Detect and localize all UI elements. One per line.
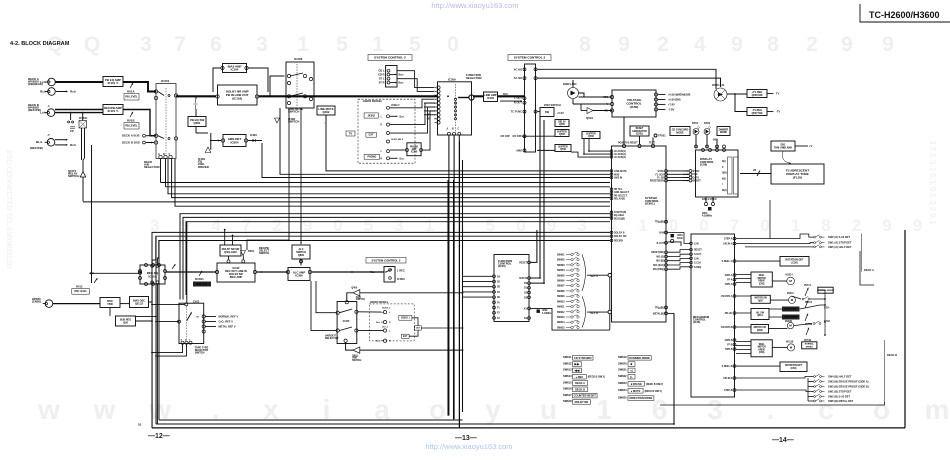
diode D400: [248, 140, 263, 142]
CX05 wiper: [187, 313, 192, 321]
svg-text:1: 1: [638, 216, 647, 235]
svg-text:AU-BUS(1): AU-BUS(1): [614, 156, 626, 159]
switch ALC SWITCH: [292, 245, 310, 259]
svg-text:AMS IN: AMS IN: [614, 177, 622, 180]
svg-text:(IC102): (IC102): [232, 97, 242, 101]
svg-text:RESET: RESET: [636, 128, 644, 130]
svg-text:CW DRV-B: CW DRV-B: [721, 327, 733, 329]
svg-text:PB LEVEL: PB LEVEL: [125, 125, 138, 128]
svg-text:(C30): (C30): [791, 368, 797, 370]
wire ic301 to ic303 upper: [270, 76, 285, 96]
svg-text:Q61B: Q61B: [757, 330, 763, 332]
svg-text:STEP-B: STEP-B: [724, 390, 733, 392]
svg-text:CD OFF: CD OFF: [512, 134, 522, 138]
svg-text:w: w: [37, 394, 60, 425]
watermark middle row digits: [150, 216, 922, 235]
wire unblank arc: [782, 152, 791, 164]
relay RY101: [79, 121, 87, 129]
svg-text:TKM UNBLANK: TKM UNBLANK: [774, 146, 792, 149]
svg-text:PHONO: PHONO: [410, 146, 418, 148]
wire trunk x91.5: [91, 145, 93, 273]
svg-text:MOTOR SW: MOTOR SW: [754, 298, 767, 300]
volume RV301 REC CAL: [199, 270, 203, 276]
motor sw B: [751, 325, 769, 334]
wire IC301 bottom drops: [160, 159, 162, 183]
svg-text:DIRECTION MODE: DIRECTION MODE: [630, 396, 653, 400]
svg-text:EQ-HIGH: EQ-HIGH: [614, 215, 624, 217]
svg-text:Q: Q: [84, 33, 100, 56]
box EXT: [366, 132, 376, 137]
svg-text:(FL35): (FL35): [793, 176, 802, 180]
amp Q401 unit switch: [353, 347, 360, 353]
svg-text:PB-SELECT: PB-SELECT: [614, 195, 628, 197]
svg-text:MO-(SLK): MO-(SLK): [653, 265, 664, 267]
mechanism right pins: [733, 237, 736, 391]
svg-text:4: 4: [694, 33, 706, 56]
svg-text:REC CAL: REC CAL: [196, 283, 208, 286]
wire ic309 big node bus: [458, 97, 469, 99]
svg-text:FF-B: FF-B: [727, 345, 733, 347]
svg-text:POWER-B RESET: POWER-B RESET: [618, 143, 638, 145]
rotation det A: [780, 257, 809, 267]
svg-text:RV1B: RV1B: [127, 119, 135, 123]
jack DECK A Lch input: [45, 78, 55, 86]
wire deck A to PB EQ AMP: [56, 81, 104, 83]
svg-text:Q301,A302: Q301,A302: [224, 251, 237, 254]
fluorescent display tube: [771, 164, 824, 184]
svg-text:SW6 (B) METAL DET: SW6 (B) METAL DET: [828, 399, 854, 403]
svg-text:D601: D601: [248, 249, 255, 253]
IC601 right metal pins: [665, 306, 668, 309]
svg-text:L REC: L REC: [397, 269, 405, 273]
svg-text:2: 2: [657, 33, 669, 56]
svg-text:CD SYNCHRO: CD SYNCHRO: [574, 356, 591, 360]
svg-text:TV: TV: [776, 92, 780, 96]
svg-text:A: A: [158, 152, 160, 156]
svg-text:+7.8V: +7.8V: [668, 103, 675, 107]
CX05 right pins: [202, 315, 205, 333]
svg-text:FWD-A: FWD-A: [725, 274, 733, 277]
svg-text:DRIVE: DRIVE: [758, 349, 765, 351]
switch SW613 symbol: [566, 315, 579, 318]
svg-text:IC101 ½: IC101 ½: [108, 81, 119, 85]
wire right vertical trunk dots: [824, 334, 826, 336]
svg-text:SW5 (A) HALF DET: SW5 (A) HALF DET: [828, 245, 852, 249]
svg-text:SWITCH: SWITCH: [195, 351, 205, 354]
svg-text:BUFFER: BUFFER: [557, 131, 567, 133]
svg-text:IC301: IC301: [161, 79, 170, 83]
mute LINE MUTE Q402: [317, 106, 335, 115]
svg-text:D501: D501: [692, 121, 699, 125]
switch block IC303: [286, 62, 314, 108]
svg-text:HIGH SPEED: HIGH SPEED: [785, 309, 798, 311]
svg-text:CD L: CD L: [378, 69, 384, 73]
svg-text:IC308: IC308: [411, 152, 418, 154]
box PHONO: [364, 154, 380, 159]
svg-text:SW614 :: SW614 :: [563, 374, 573, 378]
svg-text:CrO₂ REF V: CrO₂ REF V: [219, 320, 234, 324]
svg-text:(IC40): (IC40): [498, 264, 506, 268]
svg-text:NORMAL SPEED: NORMAL SPEED: [818, 289, 834, 292]
svg-text:AC NO: AC NO: [514, 76, 522, 80]
wire deck B frame: [660, 402, 885, 405]
wire main bus junction dots: [267, 95, 269, 97]
svg-text:IC309: IC309: [448, 78, 456, 82]
svg-text:3: 3: [707, 394, 723, 425]
svg-text:Q611: Q611: [757, 315, 763, 317]
label SYSTEM CONTROL 2 top: [368, 55, 412, 61]
svg-text:AC HO: AC HO: [514, 67, 522, 71]
svg-text:SW614: SW614: [557, 321, 565, 324]
svg-text:AMS: AMS: [516, 148, 522, 152]
svg-text:RV301: RV301: [195, 277, 204, 281]
wire h3600 arrows: [390, 115, 396, 117]
switch PB EQ SW Q301: [188, 117, 206, 127]
wire ams det left: [210, 140, 222, 142]
svg-text:-TV: -TV: [776, 110, 780, 114]
svg-text:2: 2: [806, 33, 818, 56]
selector IC305 variout: [337, 302, 357, 344]
bracket KEY B: [582, 296, 586, 327]
svg-text:+5.6V(SM): +5.6V(SM): [668, 98, 681, 102]
svg-text:DR.H/L: DR.H/L: [725, 313, 733, 315]
reel motor drive A: [751, 272, 772, 287]
IC601 right pins B-IN B-OUT: [665, 231, 668, 234]
box CD SYNCHRO MODE: [670, 127, 690, 136]
svg-text:60Hz: 60Hz: [677, 237, 684, 240]
controller FUNCTION CONTROL IC40: [494, 255, 529, 322]
svg-text:PP: PP: [70, 129, 74, 133]
wire quot relay down: [82, 177, 84, 201]
svg-text:1: 1: [297, 33, 309, 56]
quot relay switch triangle: [80, 172, 85, 178]
osc BIAS OSC Q51,52: [130, 297, 149, 308]
selector IC309 FUNCTION SELECTOR: [438, 82, 472, 135]
svg-text:MODE: MODE: [720, 132, 727, 134]
svg-text:BUFFER: BUFFER: [558, 146, 568, 148]
h3600 bottom circles: [383, 311, 386, 343]
svg-text:3: 3: [256, 33, 268, 56]
function control left pins: [493, 275, 496, 319]
svg-text:BUFFER: BUFFER: [586, 133, 596, 135]
bus wires group3 to left: [168, 159, 610, 194]
rectifier D506-511: [714, 88, 727, 101]
svg-text:Q617: Q617: [758, 300, 764, 302]
IC601 top pins: [622, 144, 654, 147]
svg-text:CD OFF: CD OFF: [500, 134, 510, 138]
svg-text:Q505: Q505: [559, 124, 565, 126]
svg-text:SW613 :: SW613 :: [563, 368, 573, 372]
svg-text:0: 0: [699, 216, 708, 235]
svg-text:SW618 :: SW618 :: [563, 399, 573, 403]
svg-text:RESET(BSP): RESET(BSP): [650, 181, 664, 183]
svg-text:2: 2: [852, 216, 861, 235]
svg-text:S(B): S(B): [722, 173, 727, 175]
svg-text:TWD-B: TWD-B: [725, 349, 733, 351]
deck B bracket: [884, 340, 886, 402]
svg-text:AU-BUS(1): AU-BUS(1): [614, 150, 626, 153]
amp D601 triangle: [241, 251, 246, 256]
switch SW6 (B) METAL DET: [814, 399, 825, 402]
svg-text:m: m: [925, 394, 950, 425]
svg-text:SW616 :: SW616 :: [563, 387, 573, 391]
svg-text:BUS(1)(B): BUS(1)(B): [614, 218, 625, 220]
osc OSC TSW: [100, 298, 120, 308]
svg-text:SW605: SW605: [557, 275, 565, 277]
legend SW622: [618, 374, 635, 379]
svg-text:MO-(REQ): MO-(REQ): [653, 269, 664, 271]
svg-text:■: ■: [631, 362, 633, 366]
legend SW614: [563, 374, 605, 379]
legend SW618: [563, 399, 590, 404]
svg-text:Q509: Q509: [560, 149, 566, 151]
switch contacts near DECK B: [68, 121, 74, 123]
svg-text:REC/PB: REC/PB: [614, 241, 623, 243]
svg-text:(IC601): (IC601): [645, 202, 655, 206]
svg-text:FWD-B: FWD-B: [725, 340, 733, 342]
wire reset drop: [531, 230, 537, 262]
reel motor drive B: [751, 340, 772, 357]
switch SW3 (B) ERASE PROOF (SIDE B): [814, 384, 825, 387]
svg-text:EXT: EXT: [403, 336, 408, 338]
svg-text:0: 0: [760, 216, 769, 235]
bottom border lines: [152, 427, 905, 429]
wire display control bottom: [705, 197, 707, 202]
svg-text:B-IN: B-IN: [659, 233, 664, 235]
svg-text:(CN50): (CN50): [32, 300, 41, 304]
buffer Q509: [555, 145, 571, 152]
right trunk from connector: [531, 117, 541, 279]
legend SW623: [618, 381, 663, 386]
svg-text:PB LEVEL: PB LEVEL: [125, 96, 138, 99]
svg-text:SW609: SW609: [557, 296, 565, 298]
unblank DS1 TKM UNBLANK: [771, 141, 795, 151]
svg-text:EN: EN: [605, 110, 609, 113]
svg-text:DIMMER: DIMMER: [719, 129, 729, 131]
svg-text:SW3 (B) ERASE PROOF (SIDE B): SW3 (B) ERASE PROOF (SIDE B): [828, 385, 869, 389]
wire ic309 to line amp arrows: [480, 95, 482, 97]
IC309 output node: [469, 95, 474, 100]
switch SW612 symbol: [566, 310, 579, 313]
svg-text:S.REQ: S.REQ: [694, 267, 701, 269]
IC601 left pins group3: [610, 188, 613, 200]
svg-text:Q806: Q806: [298, 254, 305, 257]
svg-text:AU-BUS(1): AU-BUS(1): [614, 153, 626, 156]
svg-text:H/L SW: H/L SW: [756, 312, 765, 314]
svg-text:1: 1: [791, 216, 800, 235]
wire rec eq top feeds: [151, 265, 159, 284]
switch SW1 (A) STOP DET: [814, 240, 825, 243]
svg-text:RESET: RESET: [519, 262, 527, 264]
svg-text:RESET(NG): RESET(NG): [651, 252, 664, 254]
svg-text:CX05: CX05: [193, 299, 200, 303]
svg-text:FL-SCK: FL-SCK: [655, 174, 664, 176]
IC601 right pin TP: [665, 220, 668, 223]
svg-text:SW603: SW603: [557, 265, 565, 267]
capacitor C into dolby: [194, 99, 198, 109]
svg-text:DECK A: DECK A: [864, 268, 874, 272]
svg-text:T5W: T5W: [107, 302, 113, 306]
svg-text:TC-H2600/H3600: TC-H2600/H3600: [869, 10, 940, 20]
svg-text:(C30): (C30): [791, 262, 797, 265]
svg-text:Rch: Rch: [370, 270, 375, 274]
diode DBD1-504: [568, 88, 579, 99]
switch SW609 symbol: [566, 294, 579, 297]
svg-text:3: 3: [140, 33, 152, 56]
bus wires group ic301: [161, 182, 611, 184]
svg-text:JK302-C: JK302-C: [382, 308, 391, 310]
switch SW602 symbol: [566, 258, 579, 261]
svg-text:BLA: BLA: [36, 140, 43, 144]
watermark bottom www.xiaoyu163.com: [37, 394, 949, 425]
svg-text:METAL(B): METAL(B): [653, 312, 664, 315]
display control top pins: [702, 149, 726, 152]
svg-text:RVT2A: RVT2A: [805, 301, 813, 304]
legend SW617: [563, 393, 597, 398]
svg-text:R MUTE(B): R MUTE(B): [614, 212, 626, 214]
svg-text:SWITCH: SWITCH: [288, 110, 299, 114]
svg-text:BSD CONNECTED TEL 13804053291: BSD CONNECTED TEL 13804053291: [5, 150, 12, 270]
svg-text:Q502: Q502: [588, 136, 594, 138]
svg-text:◁: ◁: [629, 369, 633, 373]
pot RVT3B: [806, 327, 810, 335]
voltage control outputs: [654, 93, 657, 111]
legend SW624: [618, 388, 662, 393]
wire function control inputs: [463, 275, 493, 277]
svg-text:DRIVE: DRIVE: [758, 281, 765, 283]
svg-text:SWITCH: SWITCH: [356, 299, 366, 301]
svg-text:SW4 (B) HALF DET: SW4 (B) HALF DET: [828, 375, 852, 379]
svg-text:Q507,509: Q507,509: [752, 112, 763, 115]
svg-text:S.OUT: S.OUT: [694, 254, 702, 256]
display sync pins: [689, 170, 692, 183]
wire led drops: [695, 135, 697, 149]
buffer DELAY box: [555, 120, 569, 127]
svg-text:B(A): B(A): [722, 189, 727, 192]
IC301 internal switches: [158, 92, 164, 96]
label SYSTEM CONTROL 2 bottom: [366, 258, 406, 264]
svg-text:W101B: W101B: [786, 342, 794, 344]
amp ALC AMP IC306: [288, 268, 310, 281]
wire deck B switch feeds: [736, 377, 814, 379]
svg-text:H3600 MODEL: H3600 MODEL: [370, 300, 389, 304]
dual speed label: [782, 315, 800, 320]
svg-text:SUB IN: SUB IN: [519, 278, 527, 280]
svg-text:RESET: RESET: [693, 180, 702, 183]
svg-text:D400: D400: [250, 133, 257, 137]
wire bias amp left: [213, 68, 221, 92]
svg-text:MODE: MODE: [676, 131, 684, 134]
switch Q71B: [813, 321, 821, 325]
led D502: [704, 126, 711, 135]
svg-text:SW: SW: [545, 110, 550, 114]
rotation det B: [780, 362, 807, 372]
motor sw det: [751, 295, 770, 303]
svg-text:● MUTE: ● MUTE: [631, 389, 641, 393]
switch SW2 (A) S-02 DET: [814, 235, 825, 238]
label tape type selector switch: [195, 347, 209, 355]
legend SW625: [618, 395, 654, 400]
svg-text:IC104: IC104: [231, 68, 239, 72]
svg-text:4-2. BLOCK DIAGRAM: 4-2. BLOCK DIAGRAM: [10, 41, 70, 47]
svg-text:S.IN: S.IN: [694, 258, 699, 260]
switch SW605 symbol: [566, 273, 579, 276]
deck A bracket: [861, 234, 863, 272]
svg-text:9: 9: [618, 33, 630, 56]
svg-text:SW613: SW613: [557, 317, 565, 319]
wire tape selector to left trunk: [156, 321, 179, 323]
display DISPLAY CONTROL C58: [696, 150, 739, 197]
svg-text:CH: CH: [196, 317, 200, 319]
svg-text:20: 20: [753, 168, 757, 172]
svg-text:SW611: SW611: [557, 307, 565, 309]
dashed box H3600 MODEL top: [358, 99, 415, 163]
svg-text:SW608: SW608: [557, 291, 565, 293]
svg-text:+V: +V: [809, 144, 813, 148]
svg-text:COUNTER RESET: COUNTER RESET: [574, 394, 597, 398]
svg-text:RESET: RESET: [694, 250, 702, 252]
wire voltage ctl feeds: [579, 93, 611, 97]
svg-text:SW2 (A) S-02 DET: SW2 (A) S-02 DET: [828, 235, 850, 239]
svg-text:SW625 :: SW625 :: [618, 395, 628, 399]
svg-text:—12—: —12—: [148, 433, 170, 440]
legend SW612: [563, 361, 582, 366]
motor W101B: [787, 344, 794, 351]
svg-text:(IC40): (IC40): [693, 320, 700, 324]
svg-text:Q50: Q50: [123, 321, 128, 324]
wire K1 K0 to keys: [531, 308, 610, 330]
svg-text:IC306: IC306: [295, 274, 303, 278]
svg-text:4.19MHz: 4.19MHz: [542, 312, 552, 315]
IC601 left pins group2: [610, 170, 613, 179]
svg-text:ST L: ST L: [379, 77, 385, 81]
svg-text:SYNC: SYNC: [658, 171, 665, 173]
svg-text:RUNNING MODE: RUNNING MODE: [629, 356, 650, 360]
svg-text:(REC/PB): (REC/PB): [28, 108, 41, 112]
wire h3600 to ic309 risers: [390, 99, 434, 108]
IC301 pin circles: [154, 90, 177, 159]
h/l sw: [751, 309, 769, 320]
wire rec bus: [166, 271, 216, 273]
wire tc func: [537, 111, 540, 113]
svg-text:SELECTOR: SELECTOR: [466, 76, 482, 80]
svg-text:Q51,52: Q51,52: [135, 302, 144, 305]
function control right pins: [528, 261, 531, 319]
svg-text:c: c: [818, 394, 834, 425]
svg-text:A/D.IN-B: A/D.IN-B: [723, 377, 733, 380]
amp LINE AMP IC402: [484, 92, 498, 102]
svg-text:CW DRV-A: CW DRV-A: [721, 295, 733, 298]
wire ams line: [537, 149, 555, 151]
svg-text:SYSTEM CONTROL 2: SYSTEM CONTROL 2: [374, 56, 406, 60]
svg-text:EXT: EXT: [369, 134, 374, 137]
svg-text:TX: TX: [349, 132, 353, 135]
svg-text:CD R: CD R: [378, 73, 384, 77]
svg-text:Lch: Lch: [40, 80, 46, 84]
svg-text:Q506,508: Q506,508: [752, 94, 763, 97]
IC309 inner circles: [454, 98, 456, 120]
switch SW1 (B) STOP DET: [814, 389, 825, 392]
svg-text:FL-SD: FL-SD: [657, 178, 664, 180]
svg-text:Bus: Bus: [400, 116, 405, 118]
svg-text:o: o: [873, 394, 890, 425]
svg-text:u: u: [540, 394, 557, 425]
model number box: [860, 4, 950, 22]
eq REC EQ IC103: [140, 265, 165, 284]
switch SW3 (B) ERASE PROOF (SIDE A): [814, 379, 825, 382]
svg-text:Q301: Q301: [194, 121, 201, 125]
svg-text:▷: ▷: [629, 375, 633, 379]
